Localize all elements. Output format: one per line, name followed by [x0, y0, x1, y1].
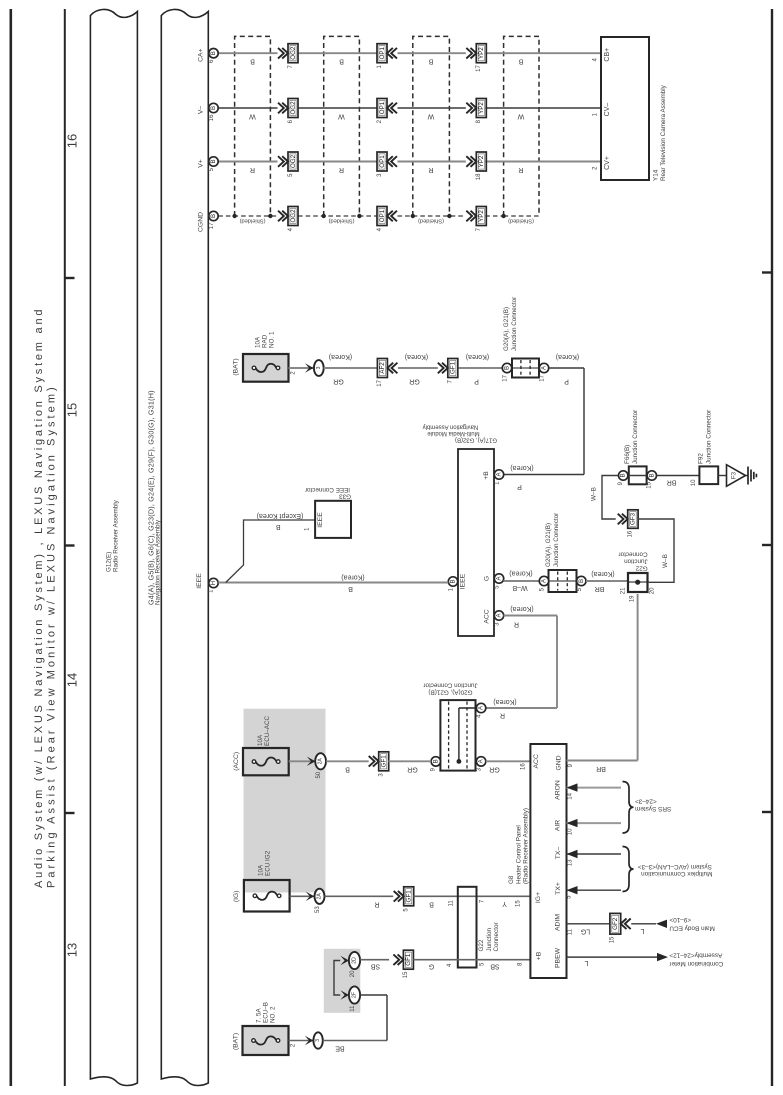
arrow into 2A	[307, 757, 316, 766]
fuse 7.5A ECU-B NO.2 (BAT)	[243, 1026, 289, 1055]
wire SB from 2D to GF1	[360, 959, 389, 961]
fuse 10A ECU IG2 (IG)	[244, 880, 290, 912]
svg-text:Junction Connector: Junction Connector	[423, 682, 477, 689]
connector YP2 pin 17	[466, 48, 476, 59]
svg-text:B: B	[250, 58, 255, 65]
svg-text:(Radio Receiver Assembly): (Radio Receiver Assembly)	[523, 808, 530, 884]
svg-text:GR: GR	[333, 378, 344, 385]
svg-text:Y: Y	[502, 900, 507, 907]
svg-text:OP1: OP1	[379, 209, 386, 222]
svg-text:W–B: W–B	[662, 554, 669, 568]
svg-text:B: B	[276, 523, 281, 530]
svg-text:+B: +B	[536, 951, 543, 960]
svg-text:GF1: GF1	[405, 953, 412, 966]
svg-text:IEEE: IEEE	[196, 573, 203, 589]
svg-text:V–: V–	[198, 106, 205, 115]
svg-text:Heater Control Panel: Heater Control Panel	[515, 825, 522, 884]
svg-text:CB+: CB+	[604, 48, 611, 62]
connector OG2 pin 7	[278, 48, 288, 59]
connector oval 2A (ACC row)	[315, 753, 326, 769]
connector GF1 pin 3	[369, 756, 379, 767]
svg-text:YP2: YP2	[478, 155, 485, 167]
svg-text:System (AVC–LAN)<3–3>: System (AVC–LAN)<3–3>	[638, 863, 712, 870]
svg-text:TX+: TX+	[555, 882, 562, 895]
left zone line	[64, 9, 66, 1086]
svg-text:RAD: RAD	[261, 334, 268, 348]
shield box 2 (dashed)	[324, 36, 360, 216]
svg-text:Junction Connector: Junction Connector	[553, 513, 560, 567]
wire BR (Korea) junction #2 to G22	[586, 580, 627, 582]
svg-text:2D: 2D	[352, 957, 358, 964]
pin 3 ACC on module	[494, 611, 503, 620]
svg-text:3: 3	[315, 1039, 321, 1042]
wire F92 to ground	[718, 475, 726, 477]
svg-text:B: B	[428, 58, 433, 65]
wire W-B from F66 down to GF3	[602, 476, 618, 520]
svg-text:(Shielded): (Shielded)	[239, 218, 265, 224]
svg-text:CV–: CV–	[604, 103, 611, 117]
link wire 2D-2F	[334, 961, 340, 996]
svg-text:OG2: OG2	[290, 101, 297, 115]
svg-text:20: 20	[649, 587, 655, 594]
wire V– row from Navigation Receiver	[218, 107, 277, 109]
svg-text:(BAT): (BAT)	[233, 1033, 240, 1050]
svg-text:W: W	[517, 113, 524, 120]
fusebox connector arrow	[305, 363, 314, 372]
svg-text:10A: 10A	[258, 864, 265, 876]
svg-text:BE: BE	[335, 1045, 345, 1052]
ECU box G12(E) Radio Receiver Assembly	[90, 9, 137, 1085]
svg-text:B: B	[450, 579, 457, 583]
svg-text:ECU–ACC: ECU–ACC	[264, 715, 271, 746]
wire B to G22 (IG row)	[413, 895, 531, 897]
svg-text:16: 16	[209, 114, 215, 121]
svg-text:P: P	[564, 378, 569, 385]
svg-text:17: 17	[209, 222, 215, 229]
svg-text:ACC: ACC	[484, 609, 491, 623]
connector OG2 pin 5	[278, 156, 288, 167]
wire BE to corner	[323, 1040, 387, 1042]
svg-text:R: R	[250, 166, 255, 173]
fusebox connector oval 3 (BAT)	[313, 1032, 322, 1048]
svg-text:CV+: CV+	[604, 156, 611, 170]
svg-text:21: 21	[620, 587, 626, 594]
svg-text:(Korea): (Korea)	[493, 698, 516, 705]
wire L PBEW to Combination Meter	[567, 956, 658, 958]
connector YP2 pin 7	[466, 211, 476, 222]
junction block shading 2 (gray) small	[324, 949, 361, 1013]
shield drain wire CGND row (dashed)	[218, 215, 277, 217]
svg-text:B: B	[339, 58, 344, 65]
junction connector G22 (tall)	[458, 887, 477, 968]
svg-text:W: W	[338, 113, 345, 120]
svg-text:GR: GR	[489, 765, 500, 772]
svg-text:(Korea): (Korea)	[466, 353, 489, 360]
svg-text:CGND: CGND	[198, 212, 205, 232]
Multi-Media Module box G17(A) G32(B)	[458, 449, 494, 636]
svg-text:SB: SB	[371, 963, 381, 970]
svg-text:7. 5A: 7. 5A	[255, 1007, 262, 1023]
svg-text:17: 17	[540, 374, 546, 381]
svg-text:G20(A), G21(B): G20(A), G21(B)	[428, 689, 472, 696]
wire LG ADIM to GF2	[567, 923, 610, 925]
svg-text:GF1: GF1	[406, 890, 413, 903]
wire CA+ row from Navigation Receiver	[218, 52, 277, 54]
svg-text:Navigation Assembly: Navigation Assembly	[423, 424, 479, 430]
wire R to GF1 (IG row)	[325, 895, 394, 897]
wire ARON to SRS (gray)	[567, 787, 622, 789]
svg-text:B: B	[429, 900, 434, 907]
svg-text:W: W	[249, 113, 256, 120]
pin A3 right of junction #3	[476, 757, 485, 766]
svg-text:P: P	[474, 378, 479, 385]
wire fuse to oval 3	[289, 1040, 314, 1042]
junction #3 internal link	[457, 759, 462, 764]
svg-text:LG: LG	[581, 928, 590, 935]
junction connector F92	[699, 466, 718, 484]
svg-text:16: 16	[65, 134, 80, 148]
shield box 3 (dashed)	[413, 36, 450, 216]
svg-text:G20(A), G21(B): G20(A), G21(B)	[545, 523, 552, 567]
svg-text:OG2: OG2	[290, 46, 297, 60]
wire BR F66 to F92	[656, 475, 699, 477]
connector YP2 pin 8	[466, 103, 476, 114]
zone tick right 2	[762, 544, 772, 546]
svg-text:OG2: OG2	[290, 154, 297, 168]
svg-text:GR: GR	[409, 378, 420, 385]
svg-text:G: G	[429, 963, 434, 970]
wire V+ row from Navigation Receiver	[218, 161, 277, 163]
svg-text:Junction Connector: Junction Connector	[632, 410, 639, 464]
svg-text:Rear Television Camera Assembl: Rear Television Camera Assembly	[660, 84, 667, 181]
arrow to Combination Meter	[657, 953, 668, 961]
svg-text:OP1: OP1	[379, 101, 386, 114]
svg-text:G20(A), G21(B): G20(A), G21(B)	[503, 307, 510, 351]
svg-text:SB: SB	[490, 963, 500, 970]
svg-text:15: 15	[647, 481, 653, 488]
connector GF2 pin 15	[610, 913, 621, 934]
svg-text:20: 20	[350, 970, 356, 977]
svg-text:F92: F92	[697, 453, 704, 464]
svg-text:B: B	[518, 58, 523, 65]
svg-text:Assembly<24–12>: Assembly<24–12>	[669, 952, 722, 959]
svg-text:<24–3>: <24–3>	[635, 798, 657, 805]
right zone line	[771, 9, 773, 1086]
svg-text:H: H	[210, 581, 217, 585]
svg-text:15: 15	[516, 900, 522, 907]
shield box bottom edges on drain	[504, 215, 539, 217]
wire TX- to AVC-LAN	[567, 853, 622, 855]
svg-text:10A: 10A	[254, 336, 261, 348]
svg-text:Connector: Connector	[619, 551, 648, 558]
arrow to Main Body ECU	[656, 920, 667, 928]
svg-text:14: 14	[65, 673, 80, 687]
connector GF1 pin 7	[438, 363, 448, 374]
svg-text:TX–: TX–	[555, 847, 562, 860]
connector GF1 pin 5	[394, 891, 404, 902]
svg-text:OP1: OP1	[379, 46, 386, 59]
svg-text:AF2: AF2	[379, 362, 386, 374]
svg-text:Y14: Y14	[653, 169, 660, 181]
svg-text:13: 13	[567, 859, 573, 866]
wire TX+ to AVC-LAN	[567, 889, 622, 891]
wire fuse to 2A (IG)	[290, 895, 315, 897]
svg-text:G22: G22	[635, 565, 647, 572]
svg-text:11: 11	[350, 1005, 356, 1012]
ground symbol bars	[746, 475, 749, 477]
svg-text:OG2: OG2	[290, 209, 297, 223]
svg-text:(Korea): (Korea)	[510, 605, 533, 612]
svg-text:B: B	[210, 159, 217, 163]
wire fuse to connector 3	[289, 367, 314, 369]
connector AF2 pin 17	[377, 359, 387, 378]
svg-text:(IG): (IG)	[233, 890, 240, 902]
svg-text:B: B	[210, 51, 217, 55]
wire IEEE B (Korea)	[218, 582, 448, 584]
svg-text:Audio System (w/ LEXUS Navigat: Audio System (w/ LEXUS Navigation System…	[33, 307, 45, 888]
svg-text:W–B: W–B	[591, 487, 598, 501]
svg-text:Junction Connector: Junction Connector	[705, 410, 712, 464]
pin 17 CGND on Navigation Receiver	[209, 211, 218, 220]
wire GR junction #3 to G8 ACC	[486, 760, 530, 762]
svg-text:R: R	[374, 900, 379, 907]
pin 5 V+ on Navigation Receiver	[209, 157, 218, 166]
svg-text:B: B	[620, 473, 627, 477]
wire R down and left to junction #3	[556, 616, 558, 709]
svg-text:(Shielded): (Shielded)	[418, 218, 444, 224]
svg-text:Junction Connector: Junction Connector	[511, 297, 518, 351]
connector oval 2D	[349, 952, 360, 969]
junction connector G20(A) G21(B) #3 box	[440, 700, 475, 771]
svg-text:B: B	[210, 214, 217, 218]
wire AIR to SRS (gray)	[567, 822, 622, 824]
zone tick left 3	[65, 812, 75, 814]
connector oval 2F	[349, 986, 360, 1003]
connector OP1 pin 4	[377, 207, 387, 226]
svg-text:10: 10	[691, 479, 697, 486]
svg-text:W: W	[427, 113, 434, 120]
svg-text:(Korea): (Korea)	[510, 464, 533, 471]
svg-text:Navigation Receiver Assembly: Navigation Receiver Assembly	[154, 519, 161, 605]
svg-text:Connector: Connector	[493, 922, 500, 951]
svg-text:Multiplex Communication: Multiplex Communication	[641, 870, 713, 877]
svg-text:CA+: CA+	[198, 48, 205, 61]
pin 16 V– on Navigation Receiver	[209, 103, 218, 112]
svg-text:B: B	[504, 366, 511, 370]
svg-text:B: B	[648, 473, 655, 477]
svg-text:Multi-Media Module: Multi-Media Module	[427, 430, 480, 436]
svg-text:(Korea): (Korea)	[341, 574, 364, 581]
svg-text:(Korea): (Korea)	[405, 353, 428, 360]
svg-text:P: P	[517, 483, 522, 490]
pin 1 IEEE (B) on module	[448, 577, 457, 586]
shield junction dots	[232, 214, 236, 218]
svg-text:Junction: Junction	[624, 558, 648, 565]
junction connector G20(A) G21(B) #2	[544, 580, 581, 582]
arrow into 2A IG	[306, 892, 315, 901]
svg-text:R: R	[514, 621, 519, 628]
ground F3 triangle	[727, 465, 746, 487]
svg-text:B: B	[210, 106, 217, 110]
svg-text:ECU–B: ECU–B	[262, 1002, 269, 1023]
svg-text:GF1: GF1	[450, 361, 457, 374]
svg-text:2A: 2A	[318, 758, 324, 765]
svg-text:ARON: ARON	[555, 780, 562, 800]
brace SRS System	[623, 782, 634, 834]
junction connector G20(A) G21(B) #1	[507, 367, 544, 369]
svg-text:19: 19	[630, 595, 636, 602]
svg-text:IEEE Connector: IEEE Connector	[305, 486, 350, 493]
svg-text:NO. 1: NO. 1	[268, 331, 275, 348]
svg-text:IEEE: IEEE	[460, 573, 467, 589]
svg-text:50: 50	[316, 771, 322, 778]
shield box 4 (dashed)	[504, 36, 539, 216]
fuse 10A ECU-ACC (ACC)	[243, 748, 289, 775]
svg-text:(BAT): (BAT)	[233, 358, 240, 375]
svg-text:(Korea): (Korea)	[509, 570, 532, 577]
wire P down to +B row	[583, 368, 585, 475]
svg-text:Parking Assist (Rear View Moni: Parking Assist (Rear View Monitor w/ LEX…	[46, 384, 58, 888]
connector OP1 pin 3	[377, 152, 387, 171]
pin B9 left of junction #3	[431, 757, 440, 766]
zone tick right 3	[762, 811, 772, 813]
svg-text:B: B	[578, 579, 585, 583]
svg-text:BR: BR	[596, 765, 606, 772]
ECU box G4-G31 Navigation Receiver Assembly	[161, 9, 208, 1085]
arrow into 2F	[340, 990, 349, 999]
svg-text:BR: BR	[667, 479, 677, 486]
svg-text:SRS System: SRS System	[635, 805, 671, 812]
svg-text:ECU IG2: ECU IG2	[265, 850, 272, 876]
wire B to GF1 (ACC row)	[326, 760, 369, 762]
svg-text:B: B	[348, 585, 353, 592]
svg-text:15: 15	[610, 936, 616, 943]
svg-text:17: 17	[503, 374, 509, 381]
svg-text:10A: 10A	[257, 734, 264, 746]
wire G to G22 (+B row)	[413, 959, 531, 961]
svg-text:R: R	[428, 166, 433, 173]
svg-text:+B: +B	[483, 471, 490, 480]
wire BE up to 2F	[386, 995, 388, 1041]
svg-text:14: 14	[567, 792, 573, 799]
camera assembly box Y14	[601, 37, 649, 180]
IEEE connector box G33	[315, 501, 351, 538]
wire W-B (Korea) from G pin to junction #2	[504, 580, 540, 582]
connector OP1 pin 1	[377, 44, 387, 63]
zone tick right 1	[762, 271, 772, 273]
svg-text:15: 15	[65, 403, 80, 417]
wire P (Korea) junction to corner	[549, 367, 584, 369]
svg-text:53: 53	[315, 906, 321, 913]
svg-text:AIR: AIR	[555, 820, 562, 831]
svg-text:16: 16	[521, 763, 527, 770]
svg-text:18: 18	[476, 173, 482, 180]
wire GR (Korea) to GF1	[398, 367, 438, 369]
svg-text:NO. 2: NO. 2	[269, 1006, 276, 1023]
wire L to Main Body ECU	[631, 923, 656, 925]
connector GF3 pin 16	[618, 514, 628, 525]
wire W-B GF3 to G22 pin 20	[638, 519, 674, 582]
connector GF1 pin 15	[393, 954, 403, 965]
svg-text:G22: G22	[478, 939, 485, 951]
connector OG2 pin 6	[278, 103, 288, 114]
wire GR (Korea) to AF2	[324, 367, 378, 369]
connector OP1 pin 2	[377, 99, 387, 118]
svg-text:2F: 2F	[352, 992, 358, 998]
svg-text:G8: G8	[508, 875, 515, 884]
svg-text:OP1: OP1	[379, 155, 386, 168]
svg-text:YP2: YP2	[478, 47, 485, 59]
svg-text:R: R	[518, 166, 523, 173]
arrow into oval 3	[305, 1036, 314, 1045]
svg-text:15: 15	[403, 971, 409, 978]
pin A4 top of junction #3	[476, 703, 485, 712]
svg-text:B: B	[345, 765, 350, 772]
svg-text:GF3: GF3	[630, 512, 637, 525]
svg-text:11: 11	[567, 928, 573, 935]
shield box 1 (dashed)	[235, 36, 271, 216]
svg-text:17: 17	[476, 65, 482, 72]
junction block shading (gray)	[244, 709, 326, 893]
svg-text:11: 11	[448, 900, 454, 907]
svg-text:3: 3	[316, 366, 322, 369]
svg-text:G17(A), G32(B): G17(A), G32(B)	[455, 437, 497, 443]
svg-text:Main Body ECU: Main Body ECU	[669, 924, 715, 931]
pin 6 CA+ on Navigation Receiver	[209, 49, 218, 58]
svg-text:10: 10	[567, 828, 573, 835]
svg-text:Junction: Junction	[486, 928, 493, 952]
svg-text:13: 13	[65, 943, 80, 957]
wire GR to junction #3	[388, 760, 431, 762]
fuse 10A RAD NO.1 (BAT)	[243, 354, 289, 382]
svg-text:L: L	[640, 927, 644, 934]
svg-text:W–B: W–B	[512, 584, 528, 591]
svg-text:R: R	[339, 166, 344, 173]
svg-text:G: G	[484, 576, 491, 581]
svg-text:17: 17	[377, 379, 383, 386]
svg-text:(Korea): (Korea)	[329, 353, 352, 360]
svg-text:GR: GR	[407, 765, 418, 772]
junction connector F66(B)	[629, 466, 647, 484]
svg-text:2A: 2A	[317, 893, 323, 900]
svg-text:(Except Korea): (Except Korea)	[257, 512, 304, 519]
svg-text:IG+: IG+	[535, 892, 542, 903]
fusebox connector oval 3	[314, 360, 324, 376]
svg-text:GND: GND	[556, 755, 563, 770]
svg-text:(Shielded): (Shielded)	[328, 218, 354, 224]
connector OG2 pin 4	[278, 211, 288, 222]
svg-text:F3: F3	[730, 471, 737, 479]
Heater Control Panel box G8	[530, 744, 566, 978]
svg-text:L: L	[584, 959, 588, 966]
svg-text:B: B	[432, 759, 439, 763]
svg-text:Radio Receiver Assembly: Radio Receiver Assembly	[112, 499, 119, 572]
pin 1 +B on module	[494, 470, 503, 479]
svg-text:(Korea): (Korea)	[591, 570, 614, 577]
svg-text:BR: BR	[595, 585, 605, 592]
svg-text:V+: V+	[198, 159, 205, 168]
svg-text:YP2: YP2	[478, 210, 485, 222]
wire P (Korea) to junction	[459, 367, 503, 369]
wire BR from G22 pin 19 down to G8 GND	[637, 594, 639, 761]
svg-text:PBEW: PBEW	[555, 947, 562, 968]
brace Multiplex Communication	[623, 847, 634, 892]
svg-text:(Shielded): (Shielded)	[508, 218, 534, 224]
junction connector G22 (small)	[627, 581, 649, 583]
svg-text:R: R	[500, 712, 505, 719]
zone tick left 1	[65, 277, 75, 279]
wire R (Korea) from ACC pin	[504, 615, 558, 617]
